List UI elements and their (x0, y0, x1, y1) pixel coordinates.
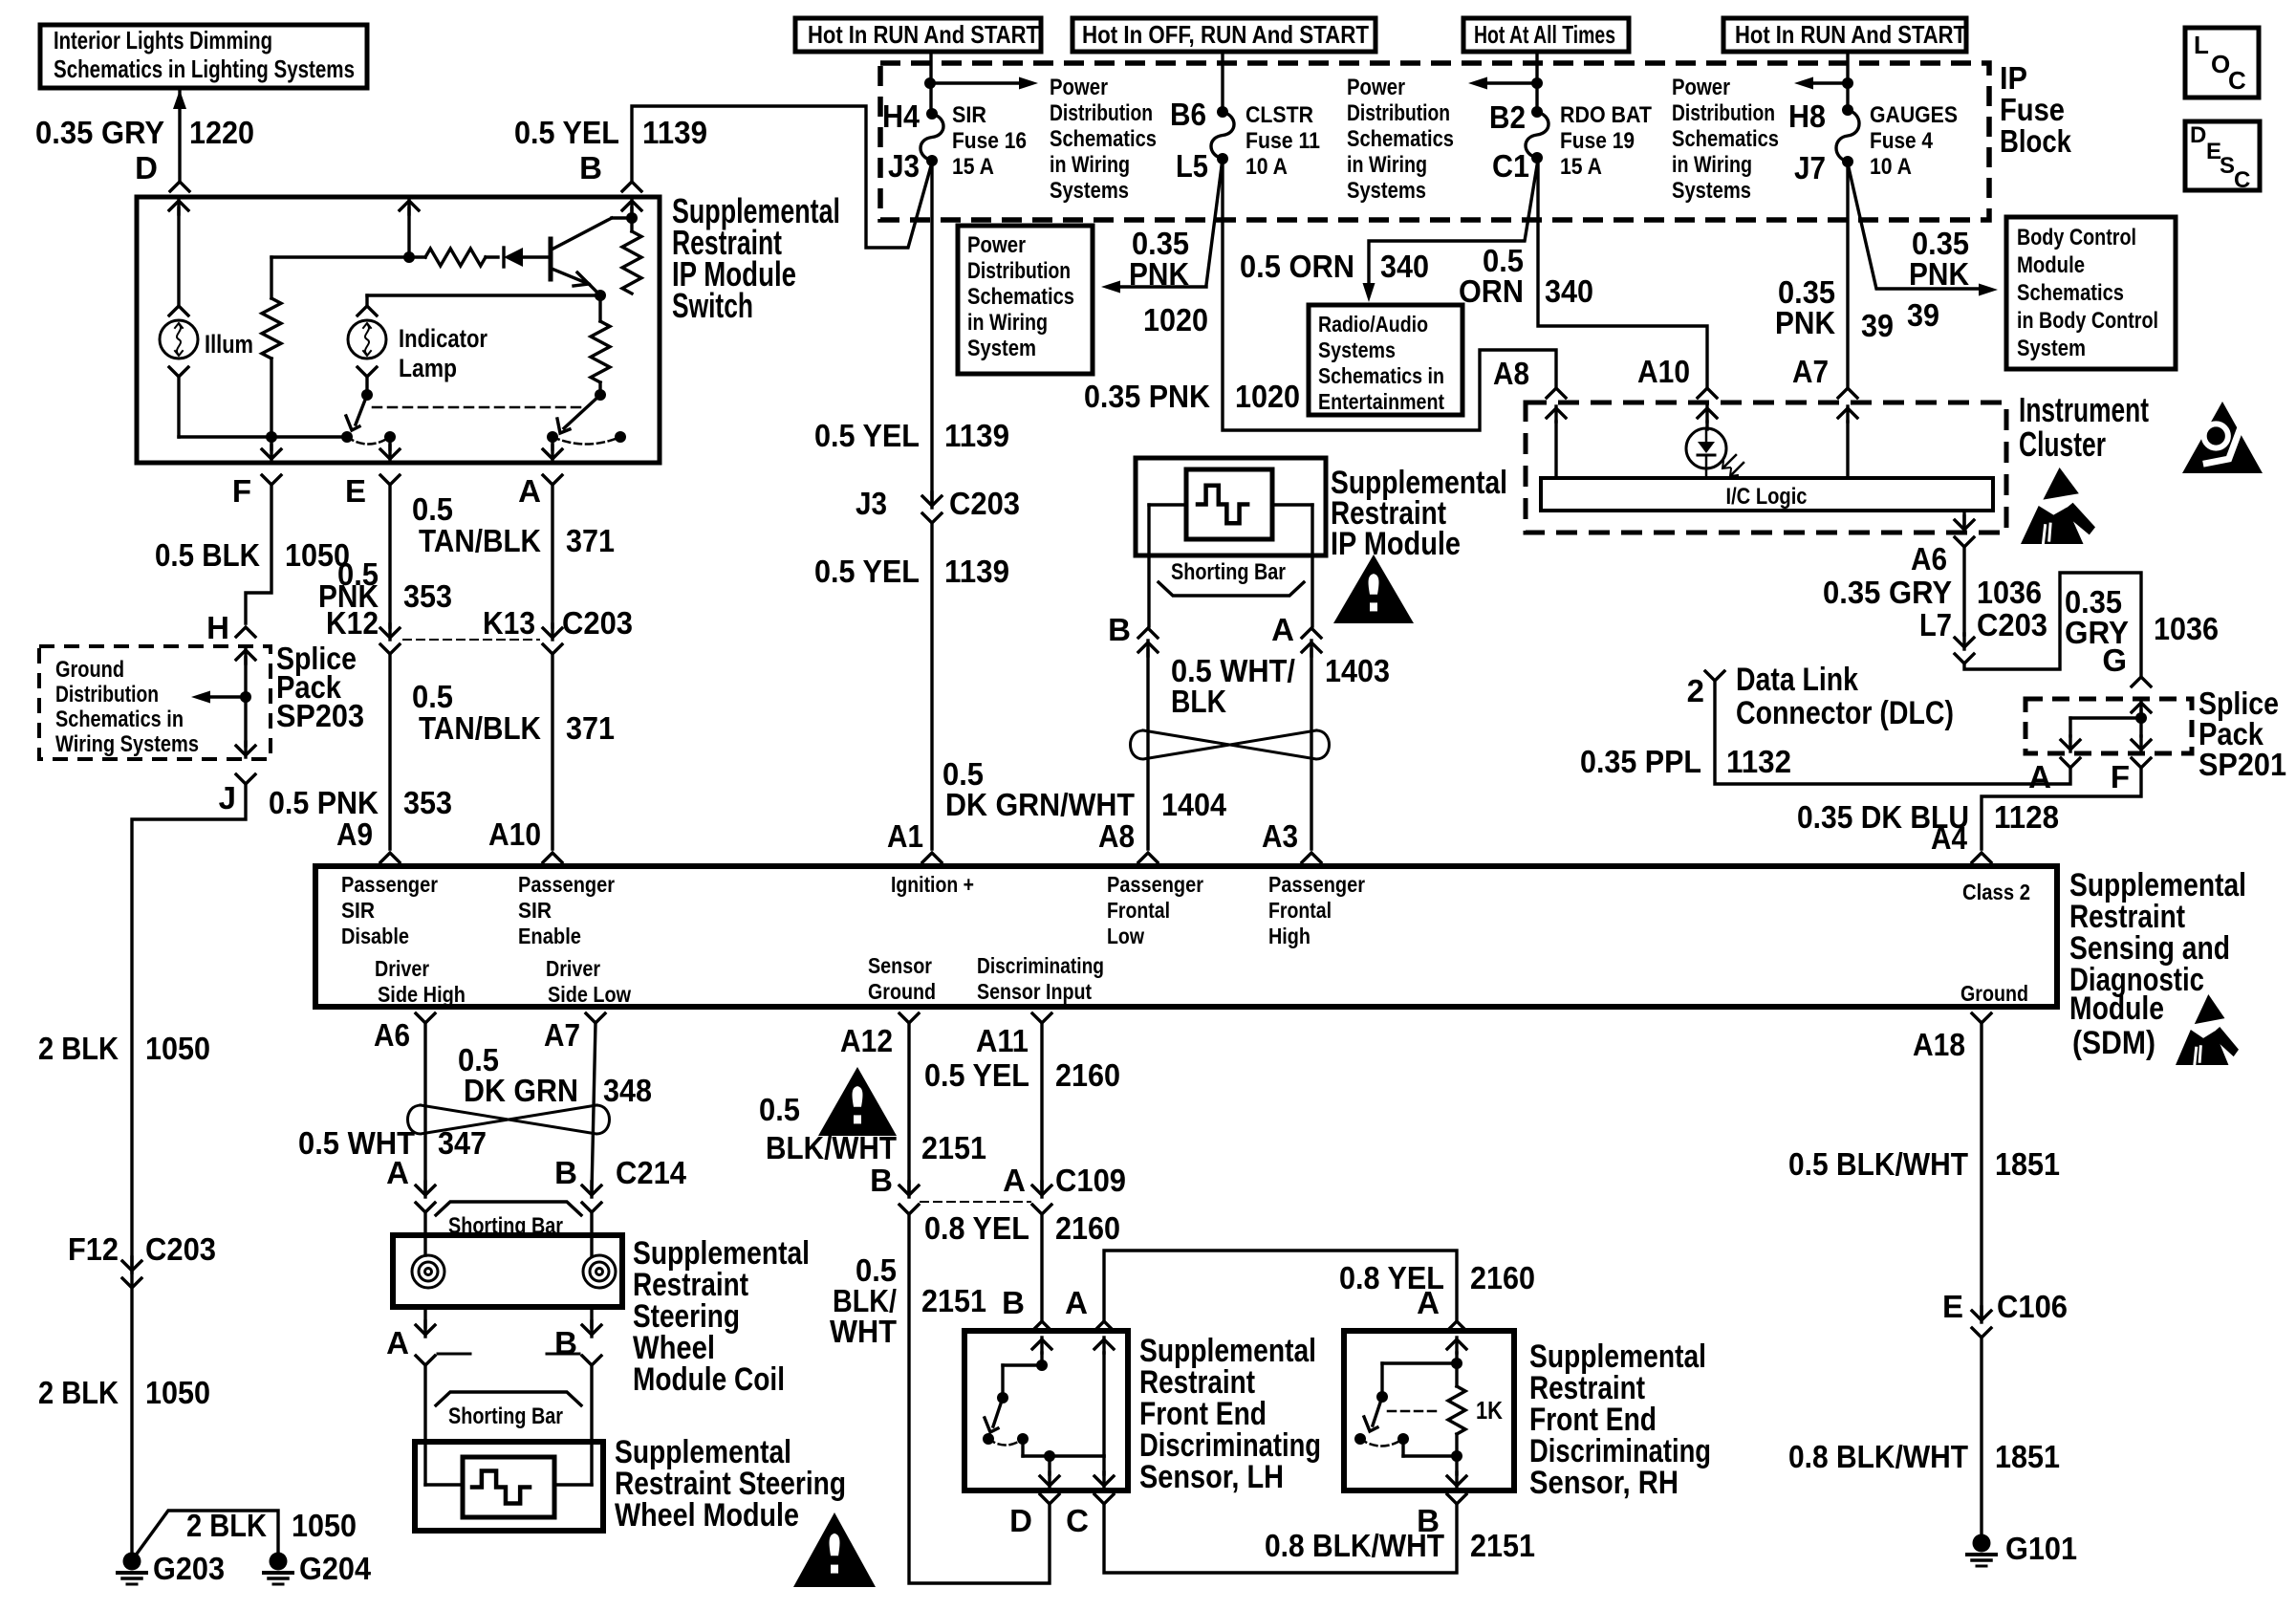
Supplemental Restraint Steering Wheel Module box (415, 1442, 603, 1531)
svg-text:Systems: Systems (1318, 337, 1396, 362)
svg-text:Interior Lights Dimming: Interior Lights Dimming (54, 26, 272, 54)
arrow to Power Distribution text (GAUGES) (1811, 81, 1848, 84)
svg-text:C203: C203 (1977, 607, 2047, 642)
wire A 0.5 TAN/BLK 371 to K13 (551, 485, 553, 627)
svg-text:Low: Low (1107, 924, 1144, 948)
svg-text:L5: L5 (1176, 148, 1208, 184)
splice pack SP203 dashed box (39, 646, 271, 759)
svg-text:2151: 2151 (921, 1283, 986, 1318)
ESD triangle near Instrument Cluster (2043, 468, 2078, 500)
Supplemental Restraint IP Module box (1136, 458, 1326, 555)
svg-text:C214: C214 (616, 1155, 687, 1190)
svg-text:371: 371 (566, 710, 615, 746)
sensor LH internals (1032, 1339, 1051, 1349)
svg-text:1128: 1128 (1994, 799, 2059, 835)
svg-text:C106: C106 (1997, 1289, 2068, 1324)
svg-text:Cluster: Cluster (2019, 424, 2106, 464)
Supplemental Restraint Front End Discriminating Sensor LH box (964, 1331, 1128, 1490)
terminal E (380, 475, 400, 485)
svg-text:D: D (2190, 122, 2206, 148)
svg-text:C: C (2234, 167, 2250, 193)
wire from Hot At All Times to RDO BAT fuse (1535, 52, 1538, 112)
resistor below B (622, 231, 641, 294)
LED indicator lamp (1686, 428, 1726, 468)
shorting bar bracket steering lower (436, 1392, 581, 1405)
svg-text:1020: 1020 (1235, 379, 1300, 414)
wire from Hot In RUN And START right to GAUGES fuse (1846, 52, 1849, 110)
wires below coil box (423, 1307, 426, 1327)
terminal F of SP201 (2132, 758, 2151, 768)
svg-text:B: B (1108, 612, 1131, 647)
svg-text:1132: 1132 (1726, 744, 1791, 779)
terminal A1 chevron (922, 853, 942, 862)
svg-text:1050: 1050 (292, 1508, 357, 1543)
shorting bar bracket steering upper (436, 1202, 581, 1215)
twisted pair symbol steering (408, 1105, 597, 1134)
svg-text:Schematics in Lighting Systems: Schematics in Lighting Systems (54, 54, 355, 83)
svg-text:A7: A7 (1792, 354, 1829, 389)
svg-text:Module: Module (2017, 252, 2085, 278)
internal resistor horizontal (425, 249, 486, 266)
box Hot At All Times (1463, 18, 1629, 52)
svg-text:Lamp: Lamp (399, 354, 457, 382)
terminal D chevron sensor LH (1040, 1494, 1059, 1504)
reference box: Radio/Audio Systems Schematics in Entertainment (1309, 305, 1462, 415)
svg-text:B: B (870, 1163, 893, 1198)
wire A12 0.5 BLK/WHT 2151 (907, 1023, 910, 1191)
svg-text:A: A (1003, 1163, 1026, 1198)
wire J3 to C203 0.5 YEL 1139 (930, 161, 933, 501)
IP Fuse Block dashed box (880, 63, 1989, 220)
terminal A10 chevron (543, 853, 562, 862)
diode (486, 255, 498, 258)
wire from Hot In RUN And START to SIR fuse (929, 52, 932, 112)
svg-text:A1: A1 (887, 818, 923, 854)
svg-text:0.5: 0.5 (412, 491, 453, 527)
DESC legend box (2185, 121, 2260, 190)
svg-text:Shorting Bar: Shorting Bar (448, 1403, 563, 1429)
svg-text:371: 371 (566, 523, 615, 558)
fuse CLSTR Fuse 11 10 A (1211, 112, 1234, 159)
connector E C106 in-line (1972, 1311, 1991, 1320)
coil spiral left (412, 1255, 444, 1288)
svg-text:DK GRN/WHT: DK GRN/WHT (945, 787, 1135, 822)
svg-text:0.5 ORN: 0.5 ORN (1240, 249, 1354, 284)
svg-text:2151: 2151 (921, 1130, 986, 1165)
svg-text:C203: C203 (562, 605, 633, 641)
terminal B chevron wheel module (582, 1356, 601, 1365)
wire A18 0.5 BLK/WHT 1851 (1980, 1023, 1982, 1316)
wire K13 to A10 0.5 TAN/BLK 371 (551, 654, 553, 849)
svg-text:Hot At All Times: Hot At All Times (1474, 20, 1615, 49)
terminal A4 chevron (1972, 853, 1991, 862)
svg-text:System: System (2017, 336, 2086, 361)
terminal A8 chevron at SDM (1138, 853, 1158, 862)
terminal A10 chevron at cluster (1698, 388, 1717, 398)
terminal D chevron (170, 182, 189, 191)
svg-text:Power: Power (967, 232, 1026, 258)
twisted pair symbol (1131, 730, 1317, 759)
branch 0.5 ORN 340 arrow into Radio/Audio box (1369, 160, 1538, 285)
svg-text:SIR: SIR (952, 102, 986, 128)
svg-text:340: 340 (1380, 249, 1429, 284)
svg-text:B: B (554, 1155, 577, 1190)
svg-text:1404: 1404 (1161, 787, 1227, 822)
svg-text:Schematics: Schematics (1050, 126, 1157, 152)
wire F 0.5 BLK 1050 to splice pack H (246, 485, 271, 623)
svg-text:Fuse 4: Fuse 4 (1870, 128, 1934, 154)
connector L7 C203 in-line (1955, 638, 1974, 647)
svg-text:Sensor: Sensor (868, 953, 932, 978)
svg-text:348: 348 (603, 1073, 652, 1108)
svg-text:in Wiring: in Wiring (1347, 152, 1427, 178)
fuse RDO BAT Fuse 19 15 A (1526, 112, 1549, 158)
wire 0.35 DK BLU 1128 SP201 F to SDM A4 (1982, 768, 2141, 849)
Data Link Connector DLC terminal 2 (1705, 671, 1724, 681)
LOC legend box (2185, 28, 2259, 98)
svg-text:2160: 2160 (1055, 1057, 1120, 1093)
reference box: Interior Lights Dimming Schematics in Lighting Systems (40, 25, 367, 88)
wire RDO C1 to cluster A10 0.5 ORN 340 (1538, 159, 1707, 386)
svg-text:L7: L7 (1919, 607, 1952, 642)
svg-text:Wheel Module: Wheel Module (615, 1497, 799, 1534)
svg-text:Module: Module (2069, 990, 2164, 1027)
wire B collector junction (622, 201, 641, 210)
svg-text:1050: 1050 (145, 1375, 210, 1410)
svg-text:Schematics: Schematics (1347, 126, 1454, 152)
svg-text:2151: 2151 (1470, 1528, 1535, 1563)
svg-text:Frontal: Frontal (1107, 898, 1170, 923)
svg-text:2: 2 (1687, 673, 1704, 708)
wire L7 to splice pack G 0.35 GRY 1036 (1964, 573, 2141, 675)
wires B A below IP module (1147, 555, 1150, 626)
box Hot In RUN And START (left) (795, 18, 1041, 52)
terminal A9 chevron (380, 853, 400, 862)
wire 0.5 BLK/WHT 2151 down-around to sensor LH D (909, 1214, 1050, 1583)
svg-text:Schematics: Schematics (1672, 126, 1779, 152)
svg-text:J7: J7 (1794, 150, 1826, 185)
svg-text:39: 39 (1861, 308, 1894, 343)
svg-text:Systems: Systems (1050, 178, 1129, 204)
svg-text:0.35 GRY: 0.35 GRY (35, 115, 164, 150)
svg-text:347: 347 (438, 1125, 487, 1161)
svg-text:SIR: SIR (518, 898, 552, 923)
svg-text:Fuse 16: Fuse 16 (952, 128, 1027, 154)
reference box: Body Control Module Schematics in Body Control System (2006, 217, 2176, 369)
terminal A chevron sensor RH (1447, 1321, 1466, 1331)
svg-text:0.5 YEL: 0.5 YEL (514, 115, 619, 150)
svg-text:G101: G101 (2005, 1531, 2077, 1566)
branch 0.35 PNK 1020 arrow to Power Distribution box (1206, 159, 1223, 285)
illum resistor (270, 257, 272, 298)
svg-text:SP203: SP203 (276, 698, 364, 733)
svg-text:Hot In RUN And START: Hot In RUN And START (808, 20, 1039, 49)
wire C203 to A1 0.5 YEL 1139 (930, 523, 933, 849)
svg-text:GAUGES: GAUGES (1870, 102, 1958, 128)
connector C203 K12 K13 in-line (380, 628, 400, 638)
svg-text:K12: K12 (326, 605, 379, 641)
terminal B chevron of C218 (1138, 628, 1158, 638)
svg-text:Fuse 19: Fuse 19 (1560, 128, 1635, 154)
wire 0.8 BLK/WHT 1851 to G101 (1980, 1338, 1982, 1534)
svg-text:in Wiring: in Wiring (1672, 152, 1752, 178)
svg-text:E: E (1942, 1289, 1963, 1324)
svg-text:Data Link: Data Link (1736, 662, 1858, 698)
svg-text:Power: Power (1347, 75, 1405, 100)
splice pack internal wire and arrows (236, 650, 255, 660)
wire A7 0.5 DK GRN 348 (592, 1023, 596, 1191)
IP module pulse element (1186, 469, 1272, 539)
svg-text:1050: 1050 (145, 1031, 210, 1066)
terminal A8 chevron at cluster (1547, 388, 1566, 398)
svg-text:A9: A9 (336, 816, 373, 852)
Supplemental Restraint Steering Wheel Module Coil box (423, 1212, 426, 1255)
terminal A12 of SDM (899, 1013, 919, 1023)
svg-text:in Wiring: in Wiring (1050, 152, 1130, 178)
svg-text:High: High (1268, 924, 1310, 948)
terminal A6 chevron (1955, 537, 1974, 547)
svg-text:A8: A8 (1098, 818, 1135, 854)
svg-text:Shorting Bar: Shorting Bar (1171, 559, 1286, 585)
svg-text:ORN: ORN (1459, 273, 1524, 309)
transistor Q1 (549, 239, 553, 279)
svg-text:1139: 1139 (944, 418, 1009, 453)
svg-text:Hot In RUN And START: Hot In RUN And START (1735, 20, 1966, 49)
terminal A chevron sensor LH (1094, 1321, 1114, 1331)
terminal A chevron of C218 (1302, 628, 1321, 638)
branch 0.35 PNK 39 arrow to Body Control Module box (1848, 163, 1979, 289)
svg-text:C203: C203 (145, 1231, 216, 1267)
svg-text:DK GRN: DK GRN (464, 1073, 578, 1108)
svg-text:Systems: Systems (1672, 178, 1751, 204)
svg-text:Enable: Enable (518, 924, 581, 948)
svg-text:F: F (2111, 759, 2130, 794)
svg-text:K13: K13 (483, 605, 535, 641)
svg-text:SIR: SIR (341, 898, 375, 923)
svg-text:A: A (1417, 1285, 1440, 1320)
SIR caution triangle near wheel module (793, 1512, 876, 1587)
svg-text:in Wiring: in Wiring (967, 310, 1048, 336)
terminal A (543, 475, 562, 485)
svg-text:H4: H4 (882, 98, 921, 134)
svg-text:0.5 YEL: 0.5 YEL (924, 1057, 1029, 1093)
svg-text:Distribution: Distribution (1672, 100, 1775, 126)
splice pack SP201 dashed box (2025, 699, 2192, 753)
svg-text:Distribution: Distribution (1347, 100, 1450, 126)
wire A11 0.5 YEL 2160 (1040, 1023, 1043, 1191)
wire B 0.5 WHT/BLK 1403 to twisted pair (1146, 650, 1149, 849)
svg-text:D: D (135, 150, 158, 185)
svg-text:Wiring Systems: Wiring Systems (55, 731, 199, 757)
svg-text:Entertainment: Entertainment (1318, 389, 1444, 414)
svg-text:A8: A8 (1493, 356, 1529, 391)
svg-text:0.5: 0.5 (759, 1092, 800, 1127)
svg-text:A: A (1271, 612, 1294, 647)
svg-text:0.35 PPL: 0.35 PPL (1580, 744, 1701, 779)
svg-text:2 BLK: 2 BLK (38, 1375, 119, 1410)
svg-text:A7: A7 (544, 1017, 580, 1053)
svg-text:PNK: PNK (1909, 256, 1969, 292)
svg-text:System: System (967, 336, 1036, 361)
SIR caution triangle near IP module (1333, 555, 1414, 623)
svg-text:0.8 YEL: 0.8 YEL (924, 1210, 1029, 1246)
cluster internal arrow A10 with LED (1698, 408, 1717, 418)
terminal A11 of SDM (1032, 1013, 1051, 1023)
svg-text:Class 2: Class 2 (1962, 880, 2030, 904)
svg-text:Distribution: Distribution (55, 682, 159, 707)
wire E 0.5 PNK 353 to K12 (388, 485, 391, 627)
svg-text:Indicator: Indicator (399, 324, 487, 353)
svg-text:G: G (2102, 642, 2127, 678)
svg-text:Discriminating: Discriminating (977, 953, 1104, 978)
svg-text:A10: A10 (488, 816, 541, 852)
svg-text:IP Module: IP Module (1331, 526, 1461, 562)
svg-text:340: 340 (1545, 273, 1593, 309)
svg-text:Illum: Illum (205, 330, 253, 359)
svg-text:IP: IP (2000, 60, 2027, 96)
svg-text:Instrument: Instrument (2019, 390, 2149, 429)
arrow to Power Distribution text (RDO) (1487, 81, 1537, 84)
ground G203 (123, 1553, 141, 1571)
svg-text:TAN/BLK: TAN/BLK (419, 710, 541, 746)
svg-text:C: C (1066, 1503, 1089, 1538)
wire 0.8 BLK/WHT 2151 sensor LH C to sensor RH B (1104, 1504, 1457, 1573)
wire J7 to cluster A7 0.35 PNK 39 (1846, 162, 1849, 386)
svg-text:Ground: Ground (55, 657, 124, 683)
svg-text:Ignition +: Ignition + (891, 872, 974, 897)
svg-text:Distribution: Distribution (1050, 100, 1153, 126)
svg-text:E: E (345, 473, 366, 509)
wire 0.8 YEL 2160 branch to sensor RH A (1104, 1251, 1457, 1319)
svg-text:1036: 1036 (2154, 611, 2219, 646)
svg-text:0.8 BLK/WHT: 0.8 BLK/WHT (1788, 1439, 1968, 1474)
svg-text:A: A (386, 1155, 409, 1190)
svg-text:0.5 BLK: 0.5 BLK (155, 537, 260, 573)
reference box: Power Distribution Schematics in Wiring System (958, 226, 1093, 374)
svg-text:Switch: Switch (672, 286, 753, 325)
svg-text:PNK: PNK (1129, 256, 1189, 292)
svg-text:Driver: Driver (546, 956, 600, 981)
svg-text:1139: 1139 (642, 115, 707, 150)
svg-text:in Body Control: in Body Control (2017, 308, 2158, 334)
svg-text:Sensor, LH: Sensor, LH (1139, 1459, 1284, 1495)
wire 0.8 YEL 2160 to sensor LH B (1040, 1214, 1043, 1319)
svg-text:Fuse: Fuse (2000, 92, 2065, 127)
svg-text:15 A: 15 A (1560, 154, 1602, 180)
svg-text:2 BLK: 2 BLK (38, 1031, 119, 1066)
svg-text:A10: A10 (1637, 354, 1690, 389)
svg-text:1851: 1851 (1995, 1146, 2060, 1182)
Instrument Cluster dashed box (1526, 402, 2006, 533)
fuse SIR Fuse 16 15 A (921, 114, 943, 161)
fuse GAUGES Fuse 4 10 A (1836, 110, 1859, 162)
terminal A6 of SDM (416, 1013, 435, 1023)
svg-text:H8: H8 (1788, 98, 1826, 134)
svg-text:15 A: 15 A (952, 154, 994, 180)
Supplemental Restraint Sensing and Diagnostic Module box (315, 866, 2057, 1007)
svg-text:0.5 PNK: 0.5 PNK (269, 785, 379, 820)
svg-text:A12: A12 (840, 1023, 893, 1058)
svg-text:B2: B2 (1489, 99, 1526, 135)
svg-text:(SDM): (SDM) (2072, 1025, 2155, 1061)
connector C214 A B in-line (416, 1186, 435, 1195)
svg-text:Side Low: Side Low (548, 982, 631, 1007)
svg-text:2160: 2160 (1470, 1260, 1535, 1295)
svg-text:TAN/BLK: TAN/BLK (419, 523, 541, 558)
svg-text:Schematics: Schematics (2017, 280, 2124, 306)
svg-text:F: F (232, 473, 251, 509)
svg-text:Passenger: Passenger (518, 872, 615, 897)
svg-text:2160: 2160 (1055, 1210, 1120, 1246)
svg-text:J3: J3 (888, 148, 920, 184)
terminal G chevron (2132, 677, 2151, 686)
svg-text:B6: B6 (1170, 97, 1206, 132)
terminal A7 chevron at cluster (1838, 388, 1857, 398)
svg-text:A6: A6 (374, 1017, 410, 1053)
ESD triangle near SDM (2195, 994, 2225, 1024)
svg-text:Schematics: Schematics (967, 284, 1074, 310)
right internal resistor (598, 295, 601, 321)
arrows exiting switch box bottom (262, 449, 281, 459)
svg-text:B: B (1417, 1503, 1440, 1538)
cluster internal arrow A8 (1547, 408, 1566, 418)
svg-text:G203: G203 (153, 1551, 225, 1586)
svg-text:Driver: Driver (375, 956, 429, 981)
box Hot In RUN And START (right) (1723, 18, 1966, 52)
wire A6 0.5 WHT 347 (423, 1023, 426, 1191)
svg-text:Systems: Systems (1347, 178, 1426, 204)
svg-text:L: L (2194, 31, 2209, 59)
terminal B chevron sensor LH (1032, 1321, 1051, 1331)
svg-text:H: H (206, 610, 229, 645)
svg-text:Side High: Side High (378, 982, 466, 1007)
svg-text:WHT: WHT (830, 1314, 897, 1349)
terminal A7 of SDM (586, 1013, 605, 1023)
terminal C chevron sensor LH (1094, 1494, 1114, 1504)
svg-text:1020: 1020 (1143, 302, 1208, 337)
svg-text:353: 353 (403, 578, 452, 614)
svg-text:A18: A18 (1913, 1027, 1965, 1062)
svg-text:Module Coil: Module Coil (633, 1361, 785, 1398)
switch internal: D branch with Illum lamp (169, 201, 188, 210)
ground G101 (1973, 1534, 1991, 1553)
svg-text:A4: A4 (1931, 820, 1968, 856)
svg-text:Power: Power (1672, 75, 1730, 100)
svg-text:1K: 1K (1476, 1396, 1503, 1425)
wire A6 0.35 GRY 1036 to L7 connector (1962, 547, 1965, 635)
svg-text:2 BLK: 2 BLK (186, 1508, 267, 1543)
terminal H chevron (236, 627, 255, 637)
svg-text:A: A (386, 1325, 409, 1360)
svg-text:C: C (2228, 66, 2246, 95)
svg-text:Passenger: Passenger (341, 872, 438, 897)
wire 0.5 YEL 1139 from terminal B to fuse J3 (632, 106, 932, 248)
switch arm right (564, 395, 600, 428)
svg-text:S: S (2220, 153, 2235, 179)
wire K12 to A9 0.5 PNK 353 (388, 654, 391, 849)
svg-text:0.35 PNK: 0.35 PNK (1084, 379, 1210, 414)
svg-text:Sensor, RH: Sensor, RH (1529, 1465, 1679, 1501)
Supplemental Restraint IP Module Switch box (137, 197, 660, 463)
svg-text:A11: A11 (976, 1023, 1029, 1058)
svg-text:Ground: Ground (868, 979, 936, 1004)
svg-text:Sensor Input: Sensor Input (977, 979, 1092, 1004)
switch contacts and arcs (384, 431, 396, 443)
ground G204 pigtail wire (135, 1511, 278, 1556)
SIR caution triangle near Instrument Cluster (2182, 402, 2263, 473)
terminal B chevron (622, 182, 641, 191)
svg-text:BLK: BLK (1171, 684, 1226, 719)
